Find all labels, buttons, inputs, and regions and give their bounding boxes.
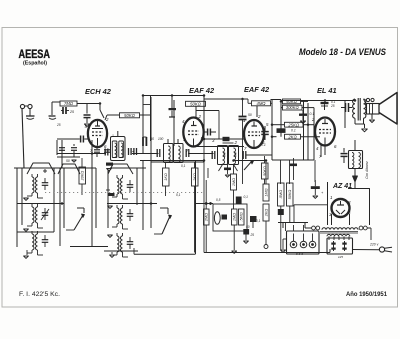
svg-text:2: 2 bbox=[234, 140, 238, 145]
svg-text:50: 50 bbox=[248, 113, 252, 117]
svg-text:F. I. 422'5 Kc.: F. I. 422'5 Kc. bbox=[19, 291, 60, 298]
svg-text:1: 1 bbox=[112, 134, 114, 138]
svg-text:EL 41: EL 41 bbox=[317, 86, 337, 95]
svg-text:25KΩ: 25KΩ bbox=[287, 122, 299, 127]
svg-text:0,1: 0,1 bbox=[244, 195, 249, 199]
svg-text:2KΩ: 2KΩ bbox=[287, 134, 297, 139]
svg-text:.5MΩ: .5MΩ bbox=[240, 212, 244, 221]
svg-text:0,1: 0,1 bbox=[226, 167, 231, 171]
svg-text:2MΩ: 2MΩ bbox=[205, 213, 209, 222]
svg-text:1KΩ: 1KΩ bbox=[164, 173, 168, 181]
svg-text:300KΩ: 300KΩ bbox=[286, 105, 300, 110]
svg-text:EAF 42: EAF 42 bbox=[189, 86, 215, 95]
svg-text:50: 50 bbox=[66, 159, 70, 163]
svg-text:25: 25 bbox=[69, 110, 74, 114]
svg-text:2KΩ: 2KΩ bbox=[264, 209, 268, 218]
svg-text:Año 1950/1951: Año 1950/1951 bbox=[346, 291, 387, 298]
svg-text:2KΩ: 2KΩ bbox=[193, 173, 197, 182]
svg-text:20KΩ: 20KΩ bbox=[81, 171, 85, 182]
svg-text:(Español): (Español) bbox=[23, 61, 47, 67]
svg-text:50KΩ: 50KΩ bbox=[288, 190, 292, 200]
svg-text:0.1: 0.1 bbox=[261, 143, 266, 147]
svg-text:220 v: 220 v bbox=[369, 243, 379, 247]
svg-text:100: 100 bbox=[158, 137, 164, 141]
svg-text:0,5: 0,5 bbox=[216, 198, 221, 202]
svg-text:ECH 42: ECH 42 bbox=[85, 87, 112, 96]
svg-text:.5MΩ: .5MΩ bbox=[279, 190, 283, 199]
svg-text:466: 466 bbox=[222, 152, 226, 158]
svg-text:1MΩ: 1MΩ bbox=[232, 178, 236, 186]
svg-text:o o o: o o o bbox=[296, 252, 303, 256]
svg-text:0,1: 0,1 bbox=[256, 219, 261, 223]
svg-text:50KΩ: 50KΩ bbox=[124, 113, 135, 118]
svg-text:1MΩ: 1MΩ bbox=[264, 188, 268, 196]
svg-text:0,1: 0,1 bbox=[181, 164, 186, 168]
svg-text:466: 466 bbox=[233, 152, 237, 158]
svg-text:0.1: 0.1 bbox=[291, 129, 296, 133]
svg-text:125: 125 bbox=[338, 255, 343, 259]
svg-text:7MΩ: 7MΩ bbox=[64, 101, 74, 106]
svg-text:2: 2 bbox=[311, 117, 315, 122]
svg-text:4MΩ: 4MΩ bbox=[256, 101, 266, 106]
svg-text:0,1: 0,1 bbox=[176, 193, 181, 197]
svg-text:50KΩ: 50KΩ bbox=[286, 99, 297, 104]
svg-text:50KΩ: 50KΩ bbox=[190, 102, 201, 107]
svg-text:2: 2 bbox=[257, 114, 261, 119]
svg-text:Modelo 18 - DA VENUS: Modelo 18 - DA VENUS bbox=[299, 47, 386, 57]
svg-text:EAF 42: EAF 42 bbox=[244, 85, 270, 94]
svg-text:25: 25 bbox=[56, 123, 61, 127]
svg-text:2: 2 bbox=[198, 114, 202, 119]
svg-text:25: 25 bbox=[250, 233, 255, 237]
svg-text:1MΩ: 1MΩ bbox=[233, 213, 237, 221]
svg-text:Con Altavoz: Con Altavoz bbox=[365, 161, 369, 179]
svg-text:25: 25 bbox=[330, 104, 335, 108]
svg-text:50: 50 bbox=[246, 225, 250, 229]
svg-text:AEESA: AEESA bbox=[19, 49, 51, 61]
